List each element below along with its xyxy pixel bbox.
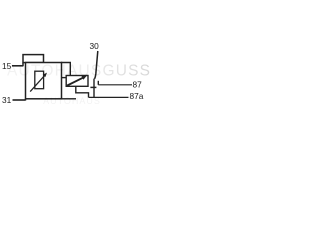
svg-text:AUTOHAUS: AUTOHAUS <box>43 96 101 106</box>
svg-text:AUTOHAUSGUSS: AUTOHAUSGUSS <box>7 63 150 80</box>
svg-text:30: 30 <box>90 41 100 51</box>
svg-text:31: 31 <box>2 95 12 105</box>
svg-text:87a: 87a <box>130 91 144 101</box>
svg-text:87: 87 <box>133 79 143 89</box>
